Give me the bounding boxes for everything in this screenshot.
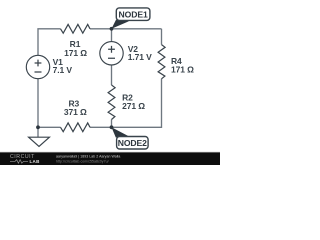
resistor R2 bbox=[108, 85, 145, 120]
wire R2 bottom to NODE2 junction bbox=[111, 120, 113, 128]
node NODE1 label flag bbox=[112, 8, 150, 29]
wire top net: left corner to R1 bbox=[38, 29, 61, 56]
junction dot at NODE1 bbox=[110, 27, 114, 31]
footer CircuitLab logo bbox=[10, 154, 40, 164]
wire NODE1 junction down to V2 top bbox=[111, 29, 113, 42]
svg-text:NODE1: NODE1 bbox=[119, 10, 148, 20]
wire V1 bottom down to ground junction bbox=[37, 79, 39, 128]
node NODE2 label flag bbox=[112, 127, 149, 149]
wire R3 left lead to ground junction bbox=[38, 126, 61, 128]
svg-text:7.1 V: 7.1 V bbox=[53, 65, 73, 75]
svg-text:LAB: LAB bbox=[30, 159, 41, 164]
wire R4 bottom to bottom-right corner to NODE2 junction bbox=[112, 79, 162, 128]
junction dot ground-left bbox=[36, 125, 40, 129]
svg-text:aaryanwalia9 | 1893 Lab 2 Aary: aaryanwalia9 | 1893 Lab 2 Aaryan Walia bbox=[56, 154, 120, 158]
resistor R1 bbox=[61, 24, 91, 57]
resistor R3 bbox=[61, 99, 91, 132]
svg-text:NODE2: NODE2 bbox=[118, 138, 147, 148]
svg-text:httр://circuitlab.com/c55a8c0y: httр://circuitlab.com/c55a8c0y7u/ bbox=[56, 160, 109, 164]
resistor R4 bbox=[158, 45, 194, 79]
wire V2 bottom to R2 top bbox=[111, 65, 113, 85]
svg-text:271 Ω: 271 Ω bbox=[122, 101, 145, 111]
junction dot at NODE2 bbox=[110, 125, 114, 129]
wire R1 right to NODE1 junction to right corner bbox=[90, 28, 162, 30]
voltage source V1 bbox=[26, 55, 72, 78]
voltage source V2 bbox=[100, 42, 152, 65]
footer bar bbox=[0, 152, 220, 165]
wire NODE2 junction to R3 right lead bbox=[90, 126, 112, 128]
svg-text:171 Ω: 171 Ω bbox=[64, 48, 87, 58]
svg-text:371 Ω: 371 Ω bbox=[64, 107, 87, 117]
ground bbox=[29, 127, 50, 146]
svg-text:1.71 V: 1.71 V bbox=[128, 52, 152, 62]
wire right branch down to R4 bbox=[161, 29, 163, 45]
svg-text:171 Ω: 171 Ω bbox=[171, 65, 194, 75]
